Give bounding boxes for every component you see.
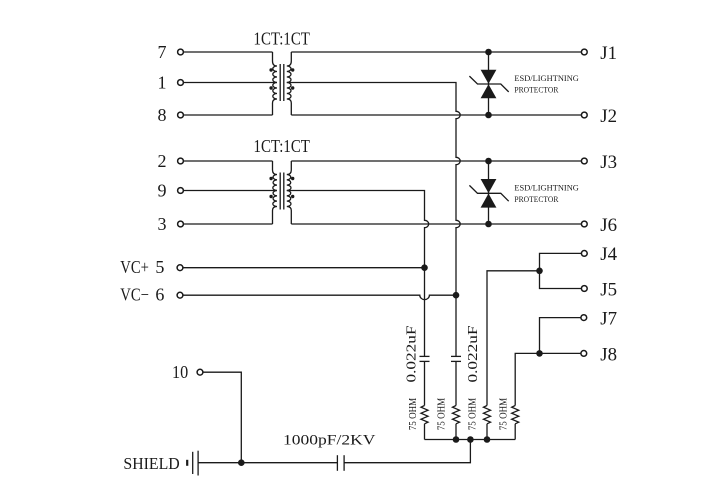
wire R2 to rail — [455, 424, 457, 440]
transformer T1 primary winding — [273, 52, 278, 115]
resistor R1 75 OHM — [421, 406, 428, 424]
junction J4/J5 — [536, 268, 543, 275]
junction rail/R3 — [484, 436, 491, 443]
svg-text:75 OHM: 75 OHM — [408, 398, 419, 431]
node J3/ESD junction — [485, 158, 492, 165]
wire C1 to R1 — [424, 361, 426, 405]
junction rail/R2 — [453, 436, 460, 443]
wire J5 to junction — [540, 271, 582, 289]
svg-text:VC+: VC+ — [120, 257, 149, 277]
svg-text:J4: J4 — [600, 244, 617, 265]
wire pin 9 to T2 primary center tap — [184, 190, 277, 192]
wire J8 to junction — [540, 352, 581, 354]
svg-text:0.022uF: 0.022uF — [466, 325, 481, 382]
svg-text:J5: J5 — [600, 279, 617, 300]
node J1/ESD junction — [485, 49, 492, 56]
transformer T2 core — [279, 173, 281, 210]
svg-text:VC−: VC− — [120, 284, 149, 304]
terminal J6 — [581, 221, 587, 227]
svg-text:10: 10 — [172, 362, 188, 382]
wire pin 1 to T1 primary center tap — [184, 82, 277, 84]
pin 3 terminal — [178, 221, 184, 227]
shield symbol — [186, 460, 188, 466]
wire T1 secondary top to J1 — [291, 51, 581, 53]
svg-text:75 OHM: 75 OHM — [499, 398, 510, 431]
svg-text:ESD/LIGHTNING: ESD/LIGHTNING — [514, 73, 579, 83]
pin 7 terminal — [178, 49, 184, 55]
terminal J3 — [581, 158, 587, 164]
wire VC+ to T2 tap column — [184, 267, 425, 269]
svg-text:5: 5 — [155, 257, 164, 277]
terminal J7 — [581, 315, 587, 321]
svg-text:75 OHM: 75 OHM — [437, 398, 448, 431]
wire T2 secondary bottom to J6 — [291, 223, 581, 225]
wire J4 to junction — [540, 253, 582, 270]
svg-text:0.022uF: 0.022uF — [405, 325, 420, 382]
terminal J5 — [581, 286, 587, 292]
transformer T2 polarity dots — [269, 177, 272, 180]
wire J4/J5 junction to column C — [487, 271, 540, 406]
ESD protector D1 (bidirectional TVS) — [481, 70, 497, 84]
wire J7/J8 junction to column D — [515, 353, 539, 405]
wire shield to C5 — [198, 462, 337, 464]
svg-text:1: 1 — [158, 73, 167, 93]
ESD protector D2 column wire — [488, 161, 490, 224]
node J6/ESD junction — [485, 221, 492, 228]
junction pin10/shield — [238, 459, 245, 466]
resistor R2 75 OHM — [453, 406, 460, 424]
wire pin 3 to T2 primary bottom — [184, 223, 273, 225]
capacitor C1 0.022uF plates — [420, 355, 430, 357]
svg-text:1CT:1CT: 1CT:1CT — [254, 28, 310, 48]
junction VC+ / column A — [421, 264, 428, 271]
wire rail drop to shield line — [344, 440, 470, 463]
wire pin 2 to T2 primary top — [184, 160, 273, 162]
capacitor C5 1000pF/2KV plates — [336, 455, 338, 471]
svg-text:8: 8 — [158, 105, 167, 125]
terminal J8 — [581, 351, 587, 357]
svg-text:J7: J7 — [600, 308, 617, 329]
svg-text:J3: J3 — [600, 152, 617, 173]
svg-text:J2: J2 — [600, 106, 617, 127]
wire R1 to rail — [424, 424, 426, 440]
pin 1 terminal — [178, 80, 184, 86]
terminal J1 — [581, 49, 587, 55]
svg-text:2: 2 — [158, 151, 167, 171]
wire R3 to rail — [486, 424, 488, 440]
wire pin 8 to T1 primary bottom — [184, 114, 273, 116]
svg-text:J1: J1 — [600, 43, 617, 64]
svg-text:9: 9 — [158, 181, 167, 201]
wire R4 to rail — [514, 424, 516, 440]
svg-text:SHIELD: SHIELD — [123, 454, 179, 473]
svg-text:7: 7 — [158, 42, 167, 62]
pin 9 terminal — [178, 188, 184, 194]
svg-text:75 OHM: 75 OHM — [468, 398, 479, 431]
terminal VC- 6 — [177, 292, 183, 298]
wire pin 7 to T1 primary top — [184, 51, 273, 53]
resistor R3 75 OHM — [484, 406, 491, 424]
svg-text:3: 3 — [158, 214, 167, 234]
svg-text:J6: J6 — [600, 215, 617, 236]
transformer T1 polarity dots — [269, 68, 272, 71]
svg-text:PROTECTOR: PROTECTOR — [514, 194, 558, 204]
terminal VC+ 5 — [177, 265, 183, 271]
capacitor C2 0.022uF plates — [451, 355, 461, 357]
pin 8 terminal — [178, 112, 184, 118]
svg-text:1000pF/2KV: 1000pF/2KV — [283, 432, 376, 448]
svg-text:1CT:1CT: 1CT:1CT — [254, 136, 310, 156]
wire T2 secondary center tap to column A (jog over J6) — [287, 191, 429, 357]
terminal J2 — [581, 112, 587, 118]
transformer T2 primary winding — [273, 161, 278, 224]
wire T2 secondary top to J3 — [291, 160, 581, 162]
junction rail/shield drop — [467, 436, 474, 443]
svg-text:6: 6 — [155, 284, 164, 304]
ground rail wire — [425, 439, 516, 441]
pin 10 terminal — [197, 369, 203, 375]
transformer T1 secondary winding — [287, 52, 292, 115]
pin 2 terminal — [178, 158, 184, 164]
svg-text:PROTECTOR: PROTECTOR — [514, 84, 558, 94]
node J2/ESD junction — [485, 112, 492, 119]
wire VC- to column B (dip under column A) — [184, 295, 457, 299]
svg-text:J8: J8 — [600, 344, 617, 365]
wire J7 to junction — [540, 318, 581, 354]
junction J7/J8 — [536, 350, 543, 357]
wire T1 secondary bottom to J2 — [291, 114, 581, 116]
wire pin 10 to shield line — [204, 372, 242, 463]
wire C2 to R2 — [455, 361, 457, 405]
svg-text:ESD/LIGHTNING: ESD/LIGHTNING — [514, 183, 579, 193]
resistor R4 75 OHM — [512, 406, 519, 424]
wire T1 secondary center tap to column B (jogs over J2, J3, J6) — [287, 83, 460, 357]
terminal J4 — [581, 251, 587, 257]
ESD protector D2 (bidirectional TVS) — [481, 179, 497, 193]
transformer T1 core — [279, 64, 281, 101]
transformer T2 secondary winding — [287, 161, 292, 224]
ESD protector D1 column wire — [488, 52, 490, 115]
junction VC- / column B — [453, 292, 460, 299]
